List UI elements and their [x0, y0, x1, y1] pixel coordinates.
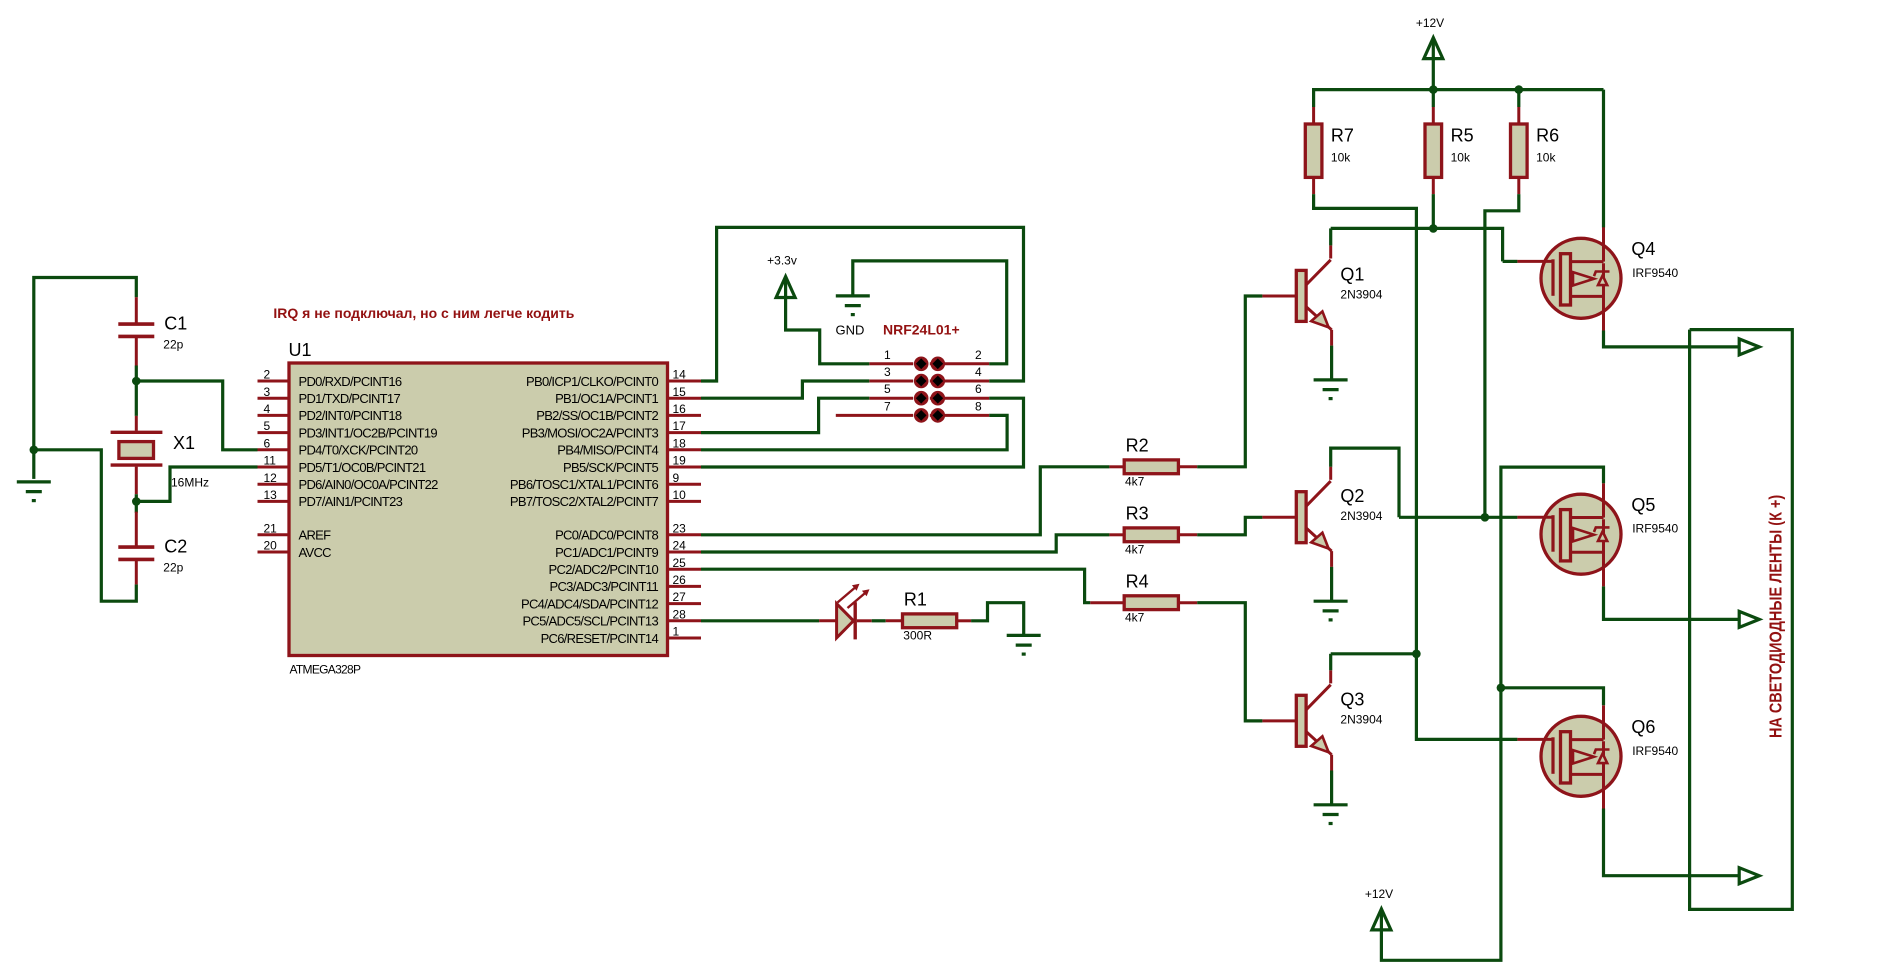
- pin 20 AVCC: [258, 539, 332, 560]
- svg-text:12: 12: [264, 471, 278, 485]
- node rail R6: [1515, 85, 1524, 94]
- connector J1 NRF24L01+: [836, 322, 989, 423]
- svg-text:3: 3: [264, 385, 271, 399]
- svg-text:16MHz: 16MHz: [171, 476, 209, 490]
- svg-text:6: 6: [264, 436, 271, 450]
- svg-text:2N3904: 2N3904: [1340, 509, 1382, 523]
- svg-text:R2: R2: [1126, 435, 1149, 455]
- svg-text:PB5/SCK/PCINT5: PB5/SCK/PCINT5: [563, 460, 658, 475]
- ground Q1 emitter: [1314, 380, 1348, 399]
- resistor R6: [1511, 107, 1560, 194]
- svg-text:IRF9540: IRF9540: [1632, 744, 1678, 758]
- node Q6 gate net: [1412, 650, 1421, 659]
- svg-text:22p: 22p: [163, 338, 183, 352]
- svg-text:13: 13: [264, 488, 278, 502]
- svg-text:PC3/ADC3/PCINT11: PC3/ADC3/PCINT11: [550, 579, 659, 594]
- svg-text:Q3: Q3: [1340, 689, 1364, 709]
- node ground junction: [30, 446, 39, 455]
- svg-text:IRQ я не подключал, но с ним л: IRQ я не подключал, но с ним легче кодит…: [273, 305, 574, 321]
- wire node A to pin 6: [136, 381, 257, 450]
- transistor Q1: [1262, 245, 1382, 345]
- svg-text:14: 14: [673, 368, 687, 382]
- pin 2 PD0/RXD/PCINT16: [258, 368, 402, 389]
- pin 21 AREF: [258, 521, 332, 542]
- wire PB0 to NRF pin 4: [701, 227, 1024, 381]
- arrow to LED strip R: [1739, 339, 1759, 355]
- wire pin 28 to LED: [701, 619, 819, 622]
- wire R4 to Q3 base: [1197, 603, 1262, 721]
- node A crystal top: [132, 377, 141, 386]
- svg-text:IRF9540: IRF9540: [1632, 522, 1678, 536]
- pin 1 PC6/RESET/PCINT14: [541, 625, 701, 646]
- pin 25 PC2/ADC2/PCINT10: [549, 556, 701, 577]
- svg-text:18: 18: [673, 436, 687, 450]
- svg-text:5: 5: [264, 419, 271, 433]
- wire Q1 collector up: [1329, 228, 1332, 245]
- svg-text:PC1/ADC1/PCINT9: PC1/ADC1/PCINT9: [555, 545, 658, 560]
- wire Q3 collector up: [1329, 654, 1332, 671]
- resistor R7: [1305, 107, 1354, 194]
- svg-text:20: 20: [264, 539, 278, 553]
- svg-text:NRF24L01+: NRF24L01+: [883, 322, 960, 338]
- svg-text:Q6: Q6: [1631, 717, 1655, 737]
- svg-text:2: 2: [264, 368, 271, 382]
- resistor R2: [1109, 435, 1197, 488]
- node rail R5: [1429, 85, 1438, 94]
- svg-text:10k: 10k: [1331, 151, 1351, 165]
- wire +3.3v to NRF pin 1: [786, 277, 870, 364]
- svg-text:2: 2: [975, 348, 982, 362]
- pin 17 PB3/MOSI/OC2A/PCINT3: [522, 419, 701, 440]
- pin 27 PC4/ADC4/SDA/PCINT12: [521, 590, 701, 611]
- wire PB5 to NRF pin 6: [701, 398, 1024, 467]
- wire Q3 emitter to ground: [1330, 771, 1333, 805]
- arrow to LED strip B: [1739, 868, 1759, 884]
- wire node B to pin 11: [136, 467, 257, 501]
- svg-text:Q2: Q2: [1340, 486, 1364, 506]
- pin 4 PD2/INT0/PCINT18: [258, 402, 402, 423]
- wire R7 bottom to Q6 gate: [1314, 194, 1518, 739]
- svg-text:4k7: 4k7: [1125, 475, 1145, 489]
- svg-text:C2: C2: [164, 537, 187, 557]
- svg-text:ATMEGA328P: ATMEGA328P: [290, 663, 362, 677]
- wire R5 bottom: [1432, 194, 1435, 228]
- ground R1: [1007, 635, 1041, 654]
- svg-text:PB7/TOSC2/XTAL2/PCINT7: PB7/TOSC2/XTAL2/PCINT7: [510, 494, 659, 509]
- svg-text:4: 4: [975, 365, 982, 379]
- wire to ground symbol: [32, 450, 35, 479]
- svg-text:8: 8: [975, 399, 982, 413]
- svg-text:28: 28: [673, 607, 687, 621]
- svg-text:23: 23: [673, 521, 687, 535]
- ground Q2 emitter: [1314, 601, 1348, 620]
- wire to Q6 source: [1501, 688, 1604, 706]
- svg-text:PC5/ADC5/SCL/PCINT13: PC5/ADC5/SCL/PCINT13: [522, 614, 658, 629]
- svg-text:НА СВЕТОДИОДНЫЕ ЛЕНТЫ (К +): НА СВЕТОДИОДНЫЕ ЛЕНТЫ (К +): [1766, 495, 1786, 738]
- wire Q2 emitter to ground: [1330, 567, 1333, 601]
- svg-text:15: 15: [673, 385, 687, 399]
- wire +12V bottom rail to Q5/Q6 source: [1381, 467, 1603, 960]
- svg-text:10k: 10k: [1536, 151, 1556, 165]
- svg-text:26: 26: [673, 573, 687, 587]
- wire Q3 collector to R7 net: [1331, 652, 1417, 655]
- wire Q6 drain to LED bus: [1604, 809, 1740, 876]
- svg-text:Q5: Q5: [1631, 495, 1655, 515]
- svg-text:4k7: 4k7: [1125, 610, 1145, 624]
- MOSFET Q4 IRF9540: [1517, 227, 1678, 330]
- svg-text:R3: R3: [1126, 503, 1149, 523]
- svg-text:IRF9540: IRF9540: [1632, 266, 1678, 280]
- svg-text:AVCC: AVCC: [299, 545, 332, 560]
- pin 12 PD6/AIN0/OC0A/PCINT22: [258, 471, 439, 492]
- arrow to LED strip G: [1739, 611, 1759, 627]
- svg-text:R7: R7: [1331, 125, 1354, 145]
- power arrow +3.3v: [776, 277, 795, 298]
- pin 23 PC0/ADC0/PCINT8: [555, 521, 701, 542]
- svg-text:PD6/AIN0/OC0A/PCINT22: PD6/AIN0/OC0A/PCINT22: [299, 477, 439, 492]
- wire LED strip bus outline: [1690, 330, 1793, 910]
- node Q6 source: [1497, 684, 1506, 693]
- svg-text:11: 11: [264, 454, 277, 468]
- svg-text:1: 1: [884, 348, 891, 362]
- svg-text:10k: 10k: [1451, 151, 1471, 165]
- pin 26 PC3/ADC3/PCINT11: [550, 573, 702, 594]
- node B crystal bottom: [132, 497, 141, 506]
- wire ground rail to C2 bottom: [34, 450, 137, 601]
- wire Q4 drain to LED bus: [1604, 331, 1740, 347]
- svg-text:25: 25: [673, 556, 687, 570]
- svg-text:27: 27: [673, 590, 687, 604]
- wire GND to NRF pin 2: [853, 261, 1007, 364]
- pin 13 PD7/AIN1/PCINT23: [258, 488, 403, 509]
- svg-text:19: 19: [673, 454, 687, 468]
- wire Q5 drain to LED bus: [1604, 586, 1740, 619]
- svg-text:17: 17: [673, 419, 687, 433]
- svg-text:5: 5: [884, 382, 891, 396]
- svg-text:24: 24: [673, 539, 687, 553]
- wire node B to C2: [135, 501, 138, 512]
- wire +12V stem: [1432, 38, 1435, 90]
- svg-text:PD5/T1/OC0B/PCINT21: PD5/T1/OC0B/PCINT21: [299, 460, 426, 475]
- wire pin 25 to R4: [701, 569, 1090, 603]
- svg-text:7: 7: [884, 399, 891, 413]
- wire R6 bottom to Q5 gate net: [1485, 194, 1519, 517]
- pin 15 PB1/OC1A/PCINT1: [555, 385, 701, 406]
- pin 11 PD5/T1/OC0B/PCINT21: [258, 454, 426, 475]
- wire PB3 to NRF pin 5: [701, 398, 869, 432]
- transistor Q3: [1262, 670, 1382, 770]
- svg-text:300R: 300R: [903, 629, 932, 643]
- svg-text:PC6/RESET/PCINT14: PC6/RESET/PCINT14: [541, 631, 659, 646]
- svg-text:PD4/T0/XCK/PCINT20: PD4/T0/XCK/PCINT20: [299, 443, 418, 458]
- resistor R4: [1090, 571, 1197, 624]
- wire R2 to Q1 base: [1197, 296, 1262, 467]
- ground Q3 emitter: [1314, 805, 1348, 824]
- wire rail to Q4 source: [1602, 90, 1605, 228]
- transistor Q2: [1262, 467, 1382, 567]
- wire X1 to node B: [135, 494, 138, 501]
- wire Q2 collector up-over: [1331, 448, 1399, 517]
- svg-text:GND: GND: [836, 323, 865, 338]
- wire Q1 emitter to ground: [1330, 346, 1333, 380]
- svg-text:AREF: AREF: [299, 528, 332, 543]
- svg-text:R5: R5: [1451, 125, 1474, 145]
- svg-text:Q1: Q1: [1340, 265, 1364, 285]
- wire R1 to ground: [971, 603, 1024, 635]
- pin 18 PB4/MISO/PCINT4: [557, 436, 701, 457]
- svg-text:+12V: +12V: [1365, 887, 1393, 901]
- wire R3 to Q2 base: [1197, 517, 1262, 535]
- svg-text:10: 10: [673, 488, 687, 502]
- svg-text:4k7: 4k7: [1125, 543, 1145, 557]
- svg-text:9: 9: [673, 471, 680, 485]
- LED D1: [819, 584, 872, 640]
- pin 16 PB2/SS/OC1B/PCINT2: [536, 402, 701, 423]
- pin 9 PB6/TOSC1/XTAL1/PCINT6: [510, 471, 701, 492]
- resistor R1: [886, 589, 971, 642]
- wire top rail: [1314, 90, 1604, 107]
- capacitor C1: [118, 297, 187, 365]
- pin 19 PB5/SCK/PCINT5: [563, 454, 701, 475]
- resistor R5: [1425, 107, 1474, 194]
- IC U1 ATMEGA328P: [289, 340, 668, 677]
- svg-text:PB6/TOSC1/XTAL1/PCINT6: PB6/TOSC1/XTAL1/PCINT6: [510, 477, 659, 492]
- power arrow +12V: [1424, 38, 1443, 59]
- svg-text:3: 3: [884, 365, 891, 379]
- svg-text:16: 16: [673, 402, 687, 416]
- svg-text:1: 1: [673, 625, 680, 639]
- svg-text:6: 6: [975, 382, 982, 396]
- ground NRF: [836, 296, 870, 315]
- svg-text:PC4/ADC4/SDA/PCINT12: PC4/ADC4/SDA/PCINT12: [521, 596, 658, 611]
- pin 28 PC5/ADC5/SCL/PCINT13: [522, 607, 701, 628]
- svg-text:Q4: Q4: [1631, 239, 1655, 259]
- wire +12V bottom stem: [1380, 909, 1383, 931]
- resistor R3: [1109, 503, 1197, 556]
- pin 3 PD1/TXD/PCINT17: [258, 385, 401, 406]
- pin 10 PB7/TOSC2/XTAL2/PCINT7: [510, 488, 701, 509]
- svg-text:R1: R1: [904, 589, 927, 609]
- svg-text:PB3/MOSI/OC2A/PCINT3: PB3/MOSI/OC2A/PCINT3: [522, 425, 659, 440]
- svg-text:PD2/INT0/PCINT18: PD2/INT0/PCINT18: [299, 408, 402, 423]
- wire PB4 to NRF pin 8: [701, 415, 1007, 449]
- svg-text:2N3904: 2N3904: [1340, 712, 1382, 726]
- svg-text:22p: 22p: [163, 561, 183, 575]
- svg-text:2N3904: 2N3904: [1340, 288, 1382, 302]
- svg-text:PD1/TXD/PCINT17: PD1/TXD/PCINT17: [299, 391, 401, 406]
- pin 6 PD4/T0/XCK/PCINT20: [258, 436, 418, 457]
- svg-text:PC0/ADC0/PCINT8: PC0/ADC0/PCINT8: [555, 528, 658, 543]
- wire Q1 collector / R5 to Q4 gate: [1331, 228, 1503, 261]
- MOSFET Q6 IRF9540: [1517, 705, 1678, 808]
- wire to Q4 gate: [1503, 260, 1518, 263]
- wire C1 top to ground rail: [34, 278, 137, 450]
- svg-text:21: 21: [264, 521, 278, 535]
- svg-text:C1: C1: [164, 314, 187, 334]
- power arrow +12V bottom: [1372, 909, 1391, 930]
- capacitor C2: [118, 512, 187, 585]
- node Q5 gate: [1481, 513, 1490, 522]
- wire C1 to node A: [135, 366, 138, 382]
- MOSFET Q5 IRF9540: [1517, 483, 1678, 586]
- wire rail to R5: [1432, 90, 1435, 107]
- svg-text:PC2/ADC2/PCINT10: PC2/ADC2/PCINT10: [549, 562, 659, 577]
- svg-text:R6: R6: [1536, 125, 1559, 145]
- svg-text:X1: X1: [173, 433, 195, 453]
- pin 14 PB0/ICP1/CLKO/PCINT0: [526, 368, 701, 389]
- svg-text:R4: R4: [1126, 571, 1149, 591]
- wire pin 24 to R3: [701, 535, 1109, 552]
- svg-text:PB4/MISO/PCINT4: PB4/MISO/PCINT4: [557, 443, 658, 458]
- wire pin 23 to R2: [701, 467, 1109, 535]
- svg-text:+12V: +12V: [1416, 16, 1444, 30]
- svg-text:4: 4: [264, 402, 271, 416]
- svg-text:PD3/INT1/OC2B/PCINT19: PD3/INT1/OC2B/PCINT19: [299, 425, 438, 440]
- svg-text:PD7/AIN1/PCINT23: PD7/AIN1/PCINT23: [299, 494, 403, 509]
- node R5 bottom: [1429, 224, 1438, 233]
- svg-text:U1: U1: [289, 340, 312, 360]
- svg-text:PB0/ICP1/CLKO/PCINT0: PB0/ICP1/CLKO/PCINT0: [526, 374, 658, 389]
- svg-text:PD0/RXD/PCINT16: PD0/RXD/PCINT16: [299, 374, 402, 389]
- wire PB1 to NRF pin 3: [701, 381, 869, 398]
- svg-text:+3.3v: +3.3v: [767, 254, 797, 268]
- crystal X1: [111, 416, 209, 494]
- pin 24 PC1/ADC1/PCINT9: [555, 539, 701, 560]
- pin 5 PD3/INT1/OC2B/PCINT19: [258, 419, 438, 440]
- wire rail to R6: [1517, 90, 1520, 107]
- wire LED to R1: [872, 619, 886, 622]
- svg-text:PB2/SS/OC1B/PCINT2: PB2/SS/OC1B/PCINT2: [536, 408, 658, 423]
- wire node A to X1: [135, 381, 138, 416]
- wire Q2 collector to Q5 gate: [1399, 516, 1517, 519]
- svg-text:PB1/OC1A/PCINT1: PB1/OC1A/PCINT1: [555, 391, 658, 406]
- ground left: [17, 482, 51, 501]
